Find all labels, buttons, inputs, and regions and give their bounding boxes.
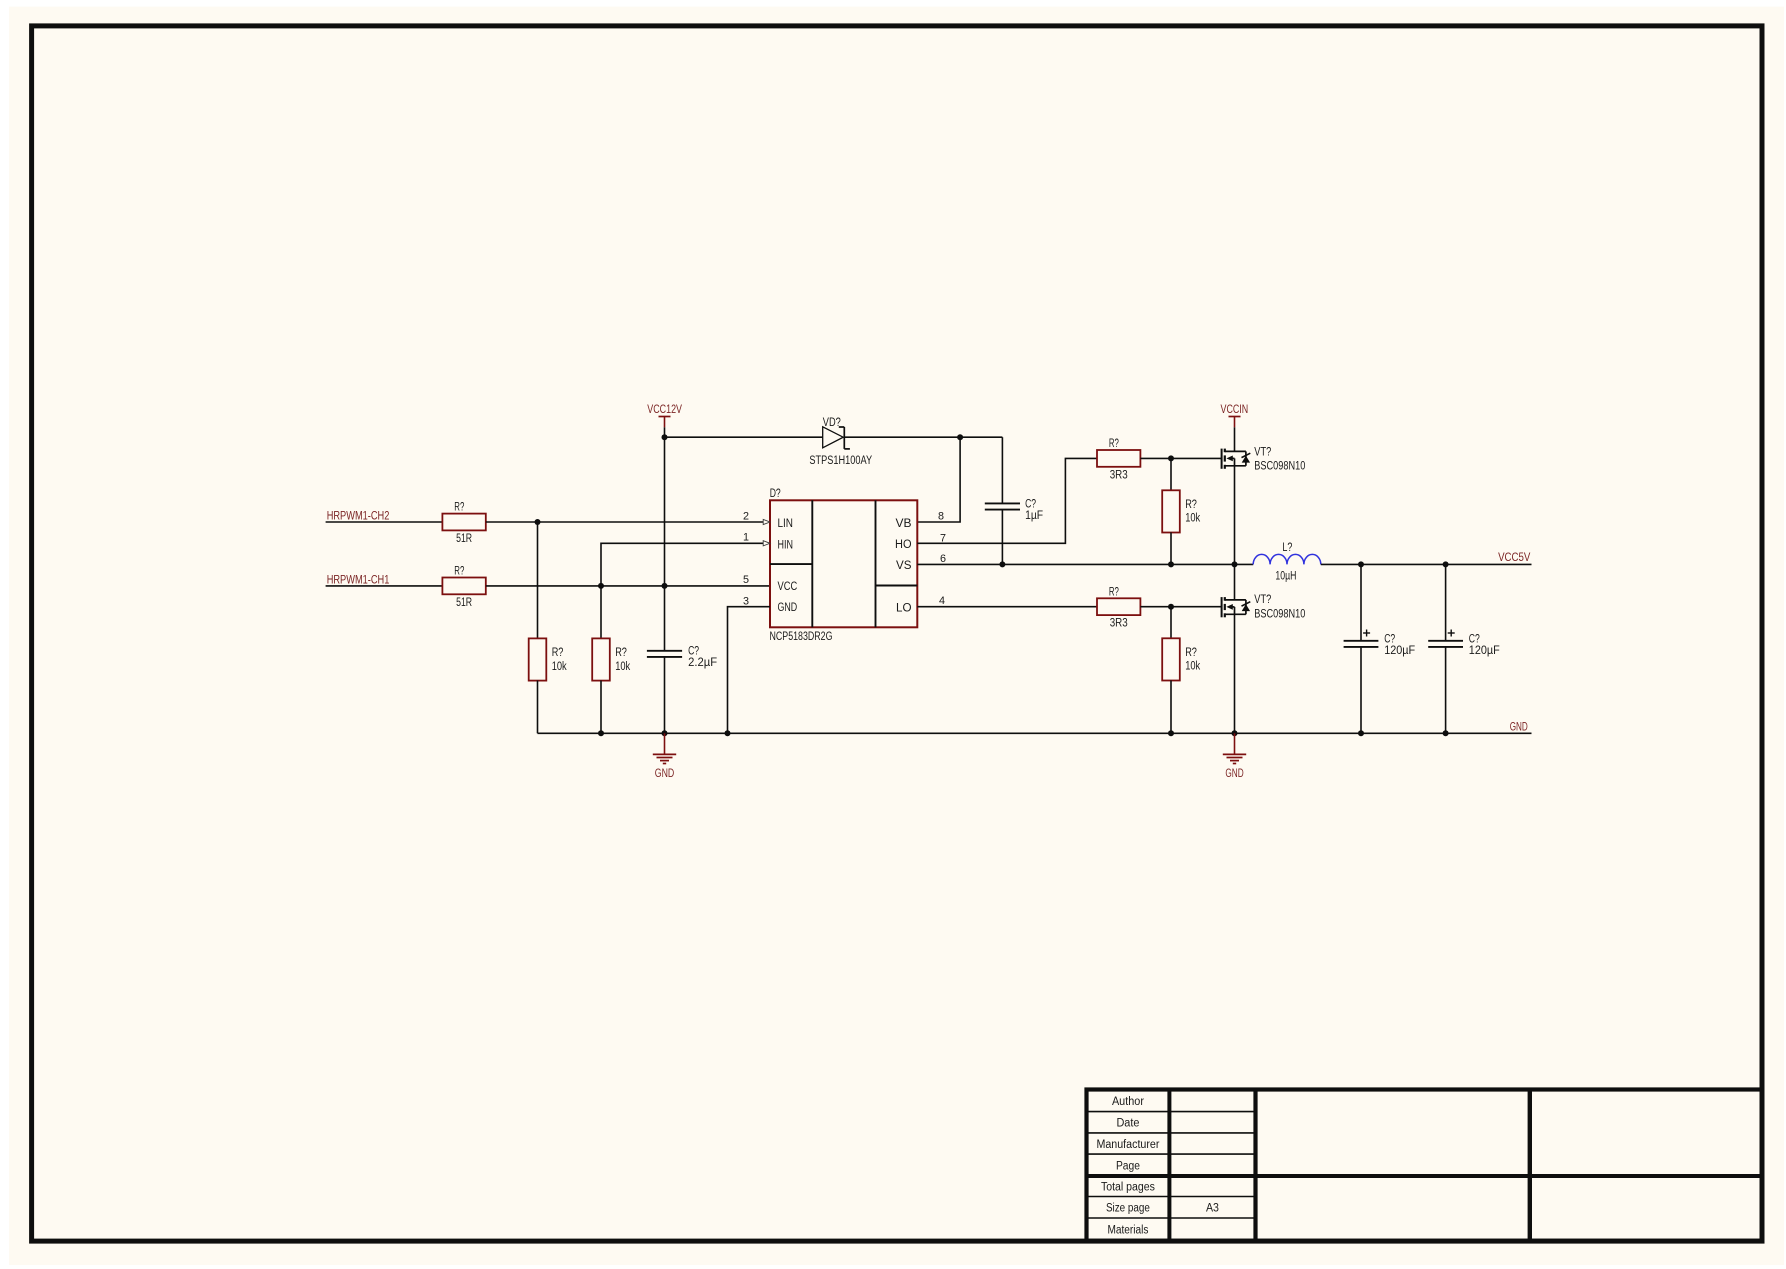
wire 10k R4 to GND bus — [600, 681, 602, 734]
diode VD? STPS1H100AY — [823, 427, 844, 448]
wire cap to GND bus — [1360, 647, 1362, 733]
svg-text:Author: Author — [1112, 1096, 1144, 1108]
svg-text:R?: R? — [454, 566, 464, 578]
ground symbol (right) — [1234, 733, 1236, 754]
svg-text:HRPWM1-CH1: HRPWM1-CH1 — [327, 574, 390, 586]
svg-text:C?: C? — [1025, 498, 1036, 510]
title block mid thick horizontal line — [1087, 1174, 1763, 1178]
gate bar — [1221, 597, 1223, 617]
junction VCC12V / VCC pin 5 wire — [662, 583, 668, 589]
junction 3R3/10k gate node upper — [1168, 455, 1174, 461]
svg-text:VCC12V: VCC12V — [647, 404, 682, 416]
wire VCC12V vertical to VCC pin line — [664, 437, 666, 586]
plus polarity mark — [1363, 632, 1370, 634]
junction C2.2 at GND bus — [662, 730, 668, 736]
junction C6 at VCC5V line — [1443, 561, 1449, 567]
capacitor C? 1uF — [985, 502, 1020, 504]
svg-text:VS: VS — [896, 560, 912, 572]
svg-text:1: 1 — [743, 532, 749, 544]
svg-text:NCP5183DR2G: NCP5183DR2G — [770, 631, 833, 643]
svg-text:3R3: 3R3 — [1110, 469, 1128, 481]
junction top rail / VB riser — [957, 434, 963, 440]
svg-text:LIN: LIN — [778, 518, 794, 530]
wire VCC5V line down to cap — [1445, 564, 1447, 641]
capacitor plates — [1344, 640, 1379, 642]
gate bar — [1221, 449, 1223, 469]
junction 10k R6 at GND bus — [1168, 730, 1174, 736]
svg-text:5: 5 — [743, 574, 749, 586]
svg-text:1µF: 1µF — [1025, 510, 1043, 522]
wire VCC line down to C 2.2uF — [664, 586, 666, 651]
wire CH1 node down to 10k R4 — [600, 586, 602, 639]
svg-text:R?: R? — [552, 647, 564, 659]
svg-text:120µF: 120µF — [1384, 645, 1415, 657]
svg-text:3R3: 3R3 — [1110, 618, 1128, 630]
svg-text:GND: GND — [778, 602, 798, 614]
svg-text:D?: D? — [770, 488, 781, 500]
wire C 2.2uF to GND bus — [664, 657, 666, 733]
junction CH1/HIN node — [598, 583, 604, 589]
svg-text:L?: L? — [1282, 542, 1292, 554]
resistor R? 10k (left 2, vertical) — [592, 638, 610, 680]
svg-text:Date: Date — [1116, 1118, 1139, 1130]
channel dashes — [1224, 597, 1226, 601]
svg-text:10k: 10k — [1185, 661, 1200, 673]
wire VT2 drain to VS line — [1234, 564, 1236, 600]
wire VS pin 6 to inductor — [917, 563, 1253, 565]
power symbol VCC12V — [659, 416, 671, 418]
wire cap to GND bus — [1445, 647, 1447, 733]
svg-text:51R: 51R — [456, 597, 472, 609]
svg-text:120µF: 120µF — [1469, 645, 1500, 657]
junction C5 at GND bus — [1358, 730, 1364, 736]
title block row line — [1087, 1196, 1256, 1198]
title block vertical divider col2 — [1253, 1090, 1257, 1241]
wire corner down to C 1uF — [1001, 437, 1003, 503]
wire R2 to VCC pin 5 — [486, 585, 770, 587]
wire VCC12V down to top rail — [664, 427, 666, 437]
junction C1uF at VS line — [999, 561, 1005, 567]
wire top rail VCC12V to diode anode — [665, 436, 823, 438]
resistor R? 51R (upper) — [442, 514, 485, 531]
pin 1 HIN input arrow — [763, 541, 770, 546]
wire R1 to LIN pin 2 — [486, 521, 763, 523]
svg-text:GND: GND — [1510, 722, 1528, 734]
svg-text:VCC5V: VCC5V — [1498, 552, 1531, 564]
power symbol VCCIN — [1229, 416, 1241, 418]
wire VT2 source to GND bus — [1234, 614, 1236, 733]
title block vertical divider col1 — [1167, 1090, 1171, 1241]
wire GND bus — [538, 732, 1532, 734]
pin 2 LIN input arrow — [763, 519, 770, 524]
ground symbol (left) — [664, 733, 666, 754]
svg-text:Manufacturer: Manufacturer — [1096, 1139, 1159, 1151]
plus polarity mark — [1448, 632, 1455, 634]
resistor R? 10k (upper right, vertical) — [1162, 490, 1180, 532]
wire inductor to VCC5V — [1321, 563, 1532, 565]
wire gate node down to 10k R6 — [1170, 607, 1172, 639]
body diode — [1245, 600, 1247, 614]
title block row line — [1087, 1111, 1256, 1113]
wire 10k R6 to GND bus — [1170, 680, 1172, 733]
wire 10k R5 to VS line — [1170, 532, 1172, 564]
junction VT2 source at GND bus — [1232, 730, 1238, 736]
svg-text:6: 6 — [940, 553, 946, 565]
wire CH2 node down to 10k R3 — [537, 522, 539, 639]
svg-text:C?: C? — [1469, 634, 1480, 646]
svg-text:3: 3 — [743, 595, 749, 607]
title block row line — [1087, 1153, 1256, 1155]
svg-text:4: 4 — [939, 595, 945, 607]
wire VCC5V line down to cap — [1360, 564, 1362, 641]
svg-text:C?: C? — [1384, 634, 1395, 646]
svg-text:10k: 10k — [1185, 513, 1200, 525]
svg-text:STPS1H100AY: STPS1H100AY — [809, 455, 872, 467]
body diode — [1245, 451, 1247, 465]
junction 10k R5 at VS line — [1168, 561, 1174, 567]
svg-text:10µH: 10µH — [1275, 570, 1296, 582]
source stub — [1225, 465, 1246, 467]
drain stub — [1225, 599, 1246, 601]
wire HRPWM1-CH1 to R2 — [326, 585, 443, 587]
svg-text:R?: R? — [454, 502, 464, 514]
wire GND pin 3 to bus — [728, 607, 771, 734]
junction C6 at GND bus — [1443, 730, 1449, 736]
resistor R? 10k (left 1, vertical) — [529, 638, 547, 680]
wire 3R3 lower to gate of VT2 — [1140, 606, 1221, 608]
junction GND pin wire at bus — [725, 730, 731, 736]
svg-text:VT?: VT? — [1254, 594, 1271, 606]
svg-text:R?: R? — [1185, 647, 1197, 659]
svg-text:R?: R? — [1109, 438, 1119, 450]
svg-text:2.2µF: 2.2µF — [688, 657, 717, 669]
junction C5 at VCC5V line — [1358, 561, 1364, 567]
wire VCCIN to VT1 drain — [1234, 427, 1236, 451]
wire 3R3 to gate of VT1 — [1140, 457, 1221, 459]
IC D? NCP5183DR2G body — [770, 500, 917, 627]
junction VT1 source at VS line — [1232, 561, 1238, 567]
resistor R? 51R (lower) — [442, 578, 485, 595]
drain stub — [1225, 450, 1246, 452]
svg-text:10k: 10k — [552, 661, 567, 673]
title block outline — [1087, 1090, 1763, 1241]
resistor R? 10k (lower right, vertical) — [1162, 638, 1180, 680]
svg-text:8: 8 — [938, 510, 944, 522]
resistor R? 3R3 (lower) — [1097, 598, 1140, 615]
svg-text:Size page: Size page — [1106, 1203, 1150, 1215]
capacitor C? 2.2uF — [647, 650, 682, 652]
wire LO pin 4 to R 3R3 lower — [917, 606, 1097, 608]
svg-text:BSC098N10: BSC098N10 — [1254, 608, 1305, 620]
title block row line — [1087, 1217, 1256, 1219]
svg-text:10k: 10k — [615, 661, 630, 673]
wire VT1 source to VS line — [1234, 466, 1236, 565]
svg-text:Page: Page — [1116, 1160, 1140, 1172]
wire C 1uF to VS line — [1001, 510, 1003, 565]
wire VB riser down to pin 8 — [917, 437, 960, 522]
svg-text:BSC098N10: BSC098N10 — [1254, 460, 1305, 472]
resistor R? 3R3 (upper) — [1097, 450, 1140, 467]
channel dashes — [1224, 449, 1226, 453]
junction CH2/10k node — [535, 519, 541, 525]
svg-text:VD?: VD? — [823, 417, 841, 429]
source stub — [1225, 613, 1246, 615]
wire HRPWM1-CH2 to R1 — [326, 521, 443, 523]
wire diode cathode to C 1uF corner — [844, 436, 1002, 438]
svg-text:HO: HO — [895, 539, 912, 551]
wire 10k R3 to GND bus — [537, 681, 539, 734]
svg-text:VCCIN: VCCIN — [1221, 404, 1249, 416]
svg-text:GND: GND — [1225, 768, 1243, 780]
svg-text:51R: 51R — [456, 533, 472, 545]
junction 3R3/10k gate node lower — [1168, 604, 1174, 610]
svg-text:A3: A3 — [1206, 1203, 1219, 1215]
svg-text:R?: R? — [1109, 586, 1119, 598]
svg-text:VB: VB — [896, 518, 912, 530]
wire gate node down to 10k R5 — [1170, 458, 1172, 490]
svg-text:VCC: VCC — [778, 581, 798, 593]
svg-text:Materials: Materials — [1107, 1225, 1148, 1237]
svg-text:HIN: HIN — [778, 540, 794, 552]
capacitor plates — [1428, 640, 1463, 642]
source arrow stub — [1232, 606, 1235, 608]
svg-text:R?: R? — [1185, 499, 1197, 511]
svg-text:VT?: VT? — [1254, 446, 1271, 458]
inductor L? 10uH — [1253, 554, 1321, 564]
wire HO pin 7 to R 3R3 upper — [917, 458, 1097, 543]
svg-text:R?: R? — [615, 647, 627, 659]
wire CH1 node up and right to HIN pin 1 — [601, 543, 763, 586]
svg-text:HRPWM1-CH2: HRPWM1-CH2 — [327, 510, 390, 522]
svg-text:2: 2 — [743, 510, 749, 522]
junction VCC12V / top rail — [662, 434, 668, 440]
source arrow stub — [1232, 457, 1235, 459]
svg-text:GND: GND — [655, 768, 675, 780]
svg-text:Total pages: Total pages — [1101, 1182, 1155, 1194]
svg-text:LO: LO — [896, 603, 912, 615]
junction R4 at GND bus — [598, 730, 604, 736]
svg-text:C?: C? — [688, 645, 699, 657]
title block row line — [1087, 1132, 1256, 1134]
title block vertical divider col3 — [1528, 1090, 1532, 1241]
